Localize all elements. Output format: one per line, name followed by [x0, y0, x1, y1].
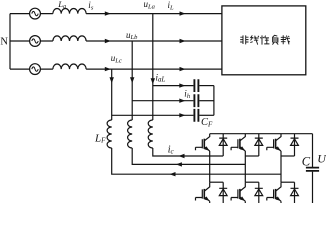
diode D1 [219, 134, 227, 156]
svg-text:C: C [302, 155, 311, 169]
AC source Vc [30, 64, 41, 75]
arrow load current phase c [180, 67, 186, 71]
wire cap a right [199, 85, 214, 87]
wire leg2 top jog [245, 155, 258, 157]
arrow tap c down [110, 77, 114, 83]
arrow source current phase b [105, 39, 111, 43]
svg-text:LF: LF [94, 133, 106, 145]
wire cap c right [199, 114, 214, 116]
arrow ic line 1 [179, 154, 185, 158]
diode D6 [291, 182, 299, 203]
wire phase a left [10, 13, 53, 15]
wire leg2 midpoint [244, 151, 246, 182]
svg-text:N: N [0, 36, 8, 47]
arrow cap branch a [179, 83, 185, 87]
svg-text:La: La [57, 0, 66, 10]
diode D5 [255, 182, 263, 203]
IGBT Q5 [231, 182, 246, 203]
wire phase c to load [86, 68, 222, 70]
inductor LF c [107, 120, 112, 148]
wire cap branch b [132, 100, 193, 102]
IGBT Q4 [196, 182, 211, 203]
wire tap phase b down [131, 41, 133, 120]
inductor La [53, 8, 86, 13]
svg-text:iL: iL [168, 0, 175, 11]
wire leg3 midpoint [280, 151, 282, 182]
svg-text:CF: CF [201, 117, 213, 128]
capacitor CF c [194, 109, 198, 122]
wire phase b to load [86, 40, 222, 42]
svg-text:ih: ih [184, 89, 190, 100]
wire LF c to leg3 [112, 148, 281, 174]
wire cap common bus [213, 86, 215, 116]
inductor Lb [53, 36, 86, 41]
nonlinear load box [222, 6, 306, 75]
inductor LF a [148, 120, 153, 148]
arrow tap b down [130, 77, 134, 83]
IGBT Q3 [267, 134, 282, 153]
wire phase b left [10, 40, 53, 42]
wire leg2 bottom jog [245, 181, 258, 183]
wire tap phase a down [152, 14, 154, 120]
nonlinear load text 非线性负载 [240, 35, 290, 44]
IGBT Q6 [267, 182, 282, 203]
capacitor C dc [306, 168, 319, 171]
arrow cap branch c [179, 113, 185, 117]
wire leg3 top jog [281, 155, 295, 157]
inductor LF b [128, 120, 133, 148]
arrow ic line 3 [170, 172, 176, 176]
wire LF a to leg1 [153, 148, 223, 156]
svg-text:uLa: uLa [144, 0, 155, 10]
diode D2 [255, 134, 263, 156]
svg-text:iaL: iaL [156, 73, 166, 84]
arrow load current phase b [180, 39, 186, 43]
wire cap branch a [153, 85, 194, 87]
svg-text:uLb: uLb [126, 30, 138, 41]
diode D3 [291, 134, 299, 156]
AC source Va [30, 8, 41, 19]
svg-text:ic: ic [168, 144, 175, 155]
capacitor CF b [194, 94, 198, 107]
AC source Vb [30, 36, 41, 47]
wire phase a to load [86, 13, 222, 15]
inductor Lc [53, 64, 86, 69]
wire leg1 midpoint [209, 151, 211, 182]
wire LF b to leg2 [132, 148, 245, 164]
wire neutral bus [9, 14, 11, 70]
diode D4 [219, 182, 227, 203]
wire cap b right [199, 100, 214, 102]
arrow source current phase a [105, 11, 111, 15]
arrow cap branch b [179, 99, 185, 103]
wire tap phase c down [111, 69, 113, 120]
arrow tap a down [151, 78, 155, 84]
wire leg1 bottom jog [210, 181, 224, 183]
capacitor CF a [194, 79, 198, 92]
wire leg3 bottom jog [281, 181, 295, 183]
arrow source current phase c [105, 67, 111, 71]
arrow ic line 2 [176, 162, 182, 166]
arrow load current phase a [180, 11, 186, 15]
wire cap branch c [112, 114, 194, 116]
wire DC top rail [210, 133, 313, 135]
IGBT Q2 [231, 134, 246, 153]
wire DC link right [312, 134, 314, 203]
wire phase c left [10, 68, 53, 70]
svg-text:uLc: uLc [111, 53, 122, 64]
svg-text:is: is [88, 0, 94, 11]
IGBT Q1 [196, 134, 211, 153]
svg-text:Udc: Udc [317, 152, 326, 166]
